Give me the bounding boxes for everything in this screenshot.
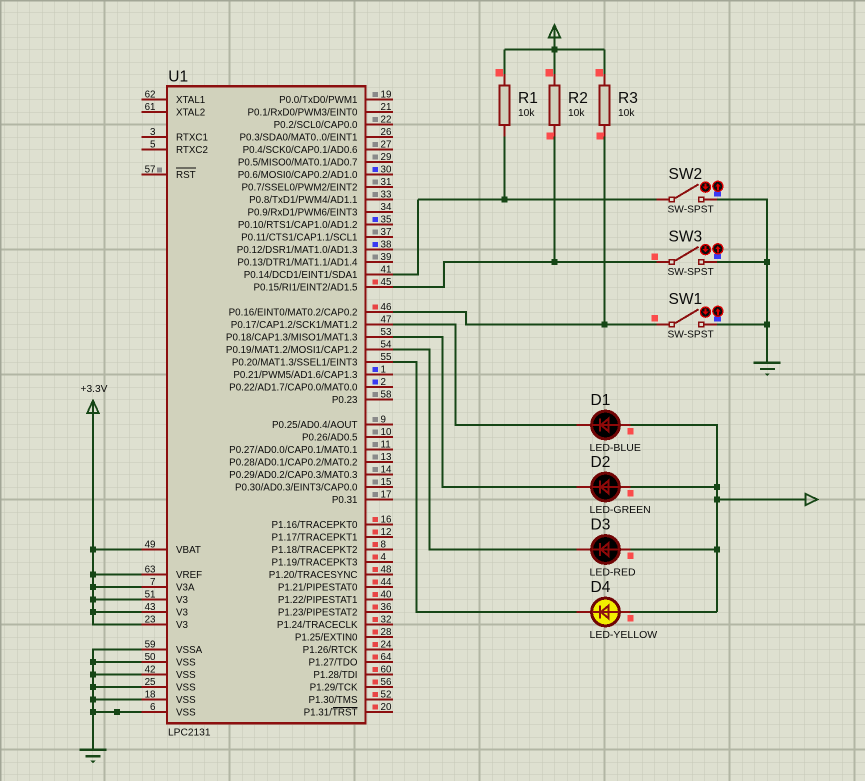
svg-text:P0.26/AD0.5: P0.26/AD0.5: [302, 432, 358, 443]
junction top rail / R2: [552, 47, 558, 53]
svg-text:D1: D1: [591, 392, 611, 409]
svg-text:P0.11/CTS1/CAP1.1/SCL1: P0.11/CTS1/CAP1.1/SCL1: [241, 232, 357, 243]
pin 45 (P0.15/RI1/EINT2/AD1.5) right stub: [253, 277, 392, 294]
wire rail to R3: [604, 50, 606, 75]
svg-text:P1.31/TRST: P1.31/TRST: [304, 707, 358, 718]
svg-text:SW-SPST: SW-SPST: [668, 267, 714, 278]
pin 17 (P0.31) right stub: [332, 489, 393, 506]
pin 29 (P0.5/MISO0/MAT0.1/AD0.7) right stub: [238, 152, 393, 169]
svg-text:XTAL1: XTAL1: [176, 95, 205, 106]
LED D4 LED-YELLOW: [577, 579, 658, 641]
pin 47 (P0.17/CAP1.2/SCK1/MAT1.2) right stub: [231, 314, 393, 331]
svg-text:32: 32: [381, 614, 392, 625]
pin 50 (VSS) left stub: [142, 652, 196, 669]
svg-text:26: 26: [381, 127, 392, 138]
svg-text:LED-BLUE: LED-BLUE: [590, 442, 641, 454]
svg-text:SW1: SW1: [669, 291, 703, 308]
net marker R1 top: [496, 69, 503, 76]
wire P0.16 to SW1 row: [393, 312, 657, 325]
wire P0.15 to SW3 row: [393, 262, 657, 287]
svg-text:VREF: VREF: [176, 570, 202, 581]
junction rail / V3A: [90, 584, 96, 590]
svg-text:P0.22/AD1.7/CAP0.0/MAT0.0: P0.22/AD1.7/CAP0.0/MAT0.0: [229, 382, 358, 393]
pin 42 (VSS) left stub: [142, 664, 196, 681]
pin 43 (V3) left stub: [142, 602, 189, 619]
pin 2 (P0.22/AD1.7/CAP0.0/MAT0.0) right stub: [229, 377, 393, 394]
svg-text:21: 21: [381, 102, 392, 113]
svg-text:16: 16: [381, 514, 392, 525]
junction bus / D3: [714, 547, 720, 553]
svg-text:64: 64: [381, 652, 392, 663]
junction R1 / SW2 row: [502, 197, 508, 203]
svg-text:RST: RST: [176, 170, 196, 181]
wire rail to VSS pin25: [93, 686, 142, 688]
svg-text:P0.20/MAT1.3/SSEL1/EINT3: P0.20/MAT1.3/SSEL1/EINT3: [232, 357, 358, 368]
wire +3.3V to V3 pin43: [93, 611, 142, 613]
svg-text:45: 45: [381, 277, 392, 288]
wire D4 to cathode bus: [631, 611, 718, 613]
pin 32 (P1.24/TRACECLK) right stub: [277, 614, 393, 631]
svg-text:2: 2: [381, 377, 386, 388]
net marker D4 cathode: [627, 615, 633, 621]
wire D3 to cathode bus: [631, 549, 718, 551]
svg-text:SW-SPST: SW-SPST: [668, 205, 714, 216]
svg-text:V3: V3: [176, 607, 189, 618]
ground (below switches): [754, 363, 781, 377]
svg-text:47: 47: [381, 314, 392, 325]
svg-text:VSSA: VSSA: [176, 645, 203, 656]
svg-text:P0.14/DCD1/EINT1/SDA1: P0.14/DCD1/EINT1/SDA1: [244, 270, 358, 281]
svg-text:11: 11: [381, 439, 391, 450]
svg-text:P1.22/PIPESTAT1: P1.22/PIPESTAT1: [278, 595, 358, 606]
svg-text:7: 7: [150, 577, 155, 588]
power terminal +V (top): [549, 25, 561, 50]
pin 21 (P0.1/RxD0/PWM3/EINT0) right stub: [248, 102, 393, 119]
svg-text:RTXC1: RTXC1: [176, 132, 208, 143]
svg-text:51: 51: [145, 589, 156, 600]
pin 23 (V3) left stub: [142, 614, 189, 631]
pin 5 (RTXC2) left stub: [142, 139, 208, 156]
pin 34 (P0.9/RxD1/PWM6/EINT3) right stub: [248, 202, 393, 219]
pin 8 (P1.18/TRACEPKT2) right stub: [271, 539, 392, 556]
pin 24 (P1.26/RTCK) right stub: [303, 639, 393, 656]
net marker D3 cathode: [627, 553, 633, 559]
svg-text:52: 52: [381, 689, 392, 700]
svg-text:35: 35: [381, 214, 392, 225]
wire P0.20 to D4: [393, 362, 577, 612]
svg-text:D2: D2: [591, 454, 611, 471]
pin 59 (VSSA) left stub: [142, 639, 203, 656]
svg-text:RTXC2: RTXC2: [176, 145, 208, 156]
svg-text:24: 24: [381, 639, 392, 650]
junction rail / VSS pin18: [90, 697, 96, 703]
pin 64 (P1.27/TDO) right stub: [308, 652, 392, 669]
svg-text:3: 3: [150, 127, 156, 138]
svg-text:P1.20/TRACESYNC: P1.20/TRACESYNC: [269, 570, 358, 581]
svg-text:P1.29/TCK: P1.29/TCK: [310, 682, 358, 693]
svg-text:VSS: VSS: [176, 657, 196, 668]
pin 51 (V3) left stub: [142, 589, 189, 606]
svg-text:V3: V3: [176, 595, 189, 606]
svg-text:63: 63: [145, 564, 156, 575]
svg-text:41: 41: [381, 264, 392, 275]
wire R1 bottom to SW2 row: [504, 137, 506, 200]
svg-text:34: 34: [381, 202, 392, 213]
net marker D1 cathode: [627, 428, 633, 434]
pin 9 (P0.25/AD0.4/AOUT) right stub: [272, 414, 393, 431]
wire P0.17 to D1: [393, 325, 577, 426]
switch SW1 SW-SPST: [657, 291, 724, 341]
pin 40 (P1.22/PIPESTAT1) right stub: [278, 589, 393, 606]
wire SW3 to ground bus: [717, 261, 767, 263]
pin 38 (P0.12/DSR1/MAT1.0/AD1.3) right stub: [237, 239, 393, 256]
junction bus / output: [714, 497, 720, 503]
svg-text:30: 30: [381, 164, 392, 175]
svg-text:23: 23: [145, 614, 156, 625]
wire VSS rail: [93, 650, 142, 750]
svg-text:P1.18/TRACEPKT2: P1.18/TRACEPKT2: [271, 545, 357, 556]
svg-text:56: 56: [381, 677, 392, 688]
svg-text:40: 40: [381, 589, 392, 600]
pin 10 (P0.26/AD0.5) right stub: [302, 427, 393, 444]
svg-text:57: 57: [145, 164, 156, 175]
svg-text:10k: 10k: [518, 108, 535, 119]
svg-text:12: 12: [381, 527, 392, 538]
wire SW2 row horizontal: [418, 199, 657, 201]
pin 61 (XTAL2) left stub: [142, 102, 206, 119]
svg-text:P0.19/MAT1.2/MOSI1/CAP1.2: P0.19/MAT1.2/MOSI1/CAP1.2: [226, 345, 358, 356]
svg-text:XTAL2: XTAL2: [176, 107, 205, 118]
wire SW1 to ground bus: [717, 324, 767, 326]
svg-text:P1.16/TRACEPKT0: P1.16/TRACEPKT0: [271, 520, 358, 531]
LED D2 LED-GREEN: [577, 454, 651, 516]
svg-text:P1.21/PIPESTAT0: P1.21/PIPESTAT0: [278, 582, 358, 593]
junction rail / VBAT: [90, 547, 96, 553]
svg-text:P0.9/RxD1/PWM6/EINT3: P0.9/RxD1/PWM6/EINT3: [248, 207, 359, 218]
svg-text:49: 49: [145, 539, 156, 550]
wire P0.14 to SW2 row: [393, 200, 418, 275]
pin 28 (P1.25/EXTIN0) right stub: [295, 627, 393, 644]
wire +3.3V to VBAT: [93, 549, 142, 551]
svg-text:P0.15/RI1/EINT2/AD1.5: P0.15/RI1/EINT2/AD1.5: [253, 282, 358, 293]
svg-text:D3: D3: [591, 517, 611, 534]
svg-text:P0.27/AD0.0/CAP0.1/MAT0.1: P0.27/AD0.0/CAP0.1/MAT0.1: [229, 445, 357, 456]
pin 22 (P0.2/SCL0/CAP0.0) right stub: [274, 114, 393, 131]
pin 15 (P0.30/AD0.3/EINT3/CAP0.0) right stub: [235, 477, 393, 494]
svg-text:P0.13/DTR1/MAT1.1/AD1.4: P0.13/DTR1/MAT1.1/AD1.4: [237, 257, 358, 268]
pin 12 (P1.17/TRACEPKT1) right stub: [271, 527, 392, 544]
net marker D2 cathode: [627, 490, 633, 496]
svg-text:37: 37: [381, 227, 392, 238]
svg-text:27: 27: [381, 139, 392, 150]
wire rail to VSS pin18: [93, 699, 142, 701]
pin 49 (VBAT) left stub: [142, 539, 201, 556]
output terminal arrow: [806, 494, 818, 506]
svg-text:P1.25/EXTIN0: P1.25/EXTIN0: [295, 632, 358, 643]
svg-text:22: 22: [381, 114, 392, 125]
svg-text:59: 59: [145, 639, 156, 650]
pin 13 (P0.28/AD0.1/CAP0.2/MAT0.2) right stub: [229, 452, 393, 469]
svg-text:P1.23/PIPESTAT2: P1.23/PIPESTAT2: [278, 607, 358, 618]
pin 46 (P0.16/EINT0/MAT0.2/CAP0.2) right stub: [229, 302, 393, 319]
svg-text:18: 18: [145, 689, 156, 700]
svg-text:P0.6/MOSI0/CAP0.2/AD1.0: P0.6/MOSI0/CAP0.2/AD1.0: [238, 170, 358, 181]
svg-text:LPC2131: LPC2131: [168, 728, 211, 739]
wire rail to VSS pin50: [93, 661, 142, 663]
svg-text:39: 39: [381, 252, 392, 263]
resistor R2 10k: [549, 74, 588, 137]
net marker R2 top: [546, 69, 553, 76]
svg-text:10: 10: [381, 427, 392, 438]
junction rail / VSS pin25: [90, 684, 96, 690]
wire rail to R2: [554, 50, 556, 75]
svg-text:5: 5: [150, 139, 156, 150]
wire +3.3V to V3A: [93, 586, 142, 588]
svg-text:19: 19: [381, 89, 392, 100]
resistor R1 10k: [499, 74, 538, 137]
svg-text:SW3: SW3: [669, 229, 703, 246]
svg-text:55: 55: [381, 352, 392, 363]
svg-text:P1.28/TDI: P1.28/TDI: [313, 670, 357, 681]
net marker SW3 input: [652, 254, 659, 261]
svg-text:SW2: SW2: [669, 166, 703, 183]
wire D2 to cathode bus: [631, 486, 718, 488]
wire rail to R1: [504, 50, 506, 75]
junction rail / V3 pin51: [90, 597, 96, 603]
wire R3 bottom to SW1 row: [604, 137, 606, 325]
svg-text:P1.24/TRACECLK: P1.24/TRACECLK: [277, 620, 358, 631]
svg-text:20: 20: [381, 702, 392, 713]
svg-text:LED-YELLOW: LED-YELLOW: [590, 629, 658, 641]
svg-text:4: 4: [381, 552, 387, 563]
svg-text:P0.12/DSR1/MAT1.0/AD1.3: P0.12/DSR1/MAT1.0/AD1.3: [237, 245, 358, 256]
svg-text:P0.4/SCK0/CAP0.1/AD0.6: P0.4/SCK0/CAP0.1/AD0.6: [243, 145, 358, 156]
svg-text:28: 28: [381, 627, 392, 638]
pin 52 (P1.30/TMS) right stub: [308, 689, 392, 706]
junction rail / VSS pin42: [90, 672, 96, 678]
svg-text:P0.21/PWM5/AD1.6/CAP1.3: P0.21/PWM5/AD1.6/CAP1.3: [233, 370, 358, 381]
pin 41 (P0.14/DCD1/EINT1/SDA1) right stub: [244, 264, 393, 281]
svg-text:U1: U1: [168, 69, 188, 86]
svg-text:13: 13: [381, 452, 392, 463]
wire P0.18 to D2: [393, 337, 577, 487]
svg-text:V3: V3: [176, 620, 189, 631]
svg-text:LED-GREEN: LED-GREEN: [590, 504, 651, 516]
pin 58 (P0.23) right stub: [332, 389, 393, 406]
svg-text:R1: R1: [518, 90, 538, 107]
pin 53 (P0.18/CAP1.3/MISO1/MAT1.3) right stub: [226, 327, 393, 344]
junction R2 / SW3 row: [552, 259, 558, 265]
svg-text:P0.10/RTS1/CAP1.0/AD1.2: P0.10/RTS1/CAP1.0/AD1.2: [238, 220, 358, 231]
pin 62 (XTAL1) left stub: [142, 89, 206, 106]
svg-text:VSS: VSS: [176, 682, 196, 693]
junction bus / SW1: [764, 322, 770, 328]
svg-text:V3A: V3A: [176, 582, 195, 593]
junction bus / SW3: [764, 259, 770, 265]
pin 33 (P0.8/TxD1/PWM4/AD1.1) right stub: [249, 189, 393, 206]
svg-text:38: 38: [381, 239, 392, 250]
pin 57 (RST) left stub: [142, 164, 196, 181]
junction rail / VREF: [90, 572, 96, 578]
net marker R3 top: [596, 69, 603, 76]
U1 reference label: [168, 69, 188, 86]
LPC2131 value label: [168, 728, 211, 739]
pin 26 (P0.3/SDA0/MAT0..0/EINT1) right stub: [240, 127, 393, 144]
svg-text:46: 46: [381, 302, 392, 313]
pin 11 (P0.27/AD0.0/CAP0.1/MAT0.1) right stub: [229, 439, 393, 456]
net marker SW1 input: [652, 315, 659, 322]
pin 20 (P1.31/TRST) right stub: [304, 702, 393, 719]
net marker R2 bottom: [547, 132, 554, 139]
net marker R3 bottom: [597, 132, 604, 139]
wire +3.3V to VREF: [93, 574, 142, 576]
svg-text:P1.26/RTCK: P1.26/RTCK: [303, 645, 358, 656]
pin 54 (P0.19/MAT1.2/MOSI1/CAP1.2) right stub: [226, 339, 393, 356]
pin 63 (VREF) left stub: [142, 564, 202, 581]
svg-text:8: 8: [381, 539, 387, 550]
svg-text:6: 6: [150, 702, 156, 713]
ground (bottom left): [80, 750, 107, 764]
svg-text:14: 14: [381, 464, 392, 475]
svg-text:48: 48: [381, 564, 392, 575]
pin 6 (VSS) left stub: [142, 702, 196, 719]
pin 37 (P0.11/CTS1/CAP1.1/SCL1) right stub: [241, 227, 393, 244]
svg-text:60: 60: [381, 664, 392, 675]
svg-text:VSS: VSS: [176, 707, 196, 718]
LED D3 LED-RED: [577, 517, 637, 579]
svg-text:61: 61: [145, 102, 156, 113]
pin 55 (P0.20/MAT1.3/SSEL1/EINT3) right stub: [232, 352, 393, 369]
svg-text:33: 33: [381, 189, 392, 200]
svg-text:54: 54: [381, 339, 392, 350]
svg-text:VSS: VSS: [176, 670, 196, 681]
pin 27 (P0.4/SCK0/CAP0.1/AD0.6) right stub: [243, 139, 393, 156]
wire SW2 to ground bus: [717, 200, 767, 363]
svg-text:50: 50: [145, 652, 156, 663]
pin 16 (P1.16/TRACEPKT0) right stub: [271, 514, 392, 531]
svg-text:62: 62: [145, 89, 156, 100]
pin 19 (P0.0/TxD0/PWM1) right stub: [279, 89, 393, 106]
pin 44 (P1.21/PIPESTAT0) right stub: [278, 577, 393, 594]
pin 3 (RTXC1) left stub: [142, 127, 208, 144]
svg-text:P0.23: P0.23: [332, 395, 358, 406]
switch SW3 SW-SPST: [657, 229, 724, 279]
junction stray on VSS pin6 wire: [114, 709, 120, 715]
junction bus / D2: [714, 484, 720, 490]
svg-text:P1.30/TMS: P1.30/TMS: [308, 695, 357, 706]
svg-text:P1.19/TRACEPKT3: P1.19/TRACEPKT3: [271, 557, 358, 568]
pin 1 (P0.21/PWM5/AD1.6/CAP1.3) right stub: [233, 364, 392, 381]
svg-text:VBAT: VBAT: [176, 545, 201, 556]
pin 30 (P0.6/MOSI0/CAP0.2/AD1.0) right stub: [238, 164, 393, 181]
svg-text:44: 44: [381, 577, 392, 588]
svg-text:P0.18/CAP1.3/MISO1/MAT1.3: P0.18/CAP1.3/MISO1/MAT1.3: [226, 332, 358, 343]
svg-text:R3: R3: [618, 90, 638, 107]
svg-text:43: 43: [145, 602, 156, 613]
svg-text:+3.3V: +3.3V: [81, 384, 108, 395]
svg-text:53: 53: [381, 327, 392, 338]
svg-text:P0.30/AD0.3/EINT3/CAP0.0: P0.30/AD0.3/EINT3/CAP0.0: [235, 482, 358, 493]
pin 31 (P0.7/SSEL0/PWM2/EINT2) right stub: [242, 177, 393, 194]
svg-text:25: 25: [145, 677, 156, 688]
svg-text:D4: D4: [591, 579, 611, 596]
svg-text:P0.31: P0.31: [332, 495, 358, 506]
svg-text:9: 9: [381, 414, 386, 425]
svg-text:P0.29/AD0.2/CAP0.3/MAT0.3: P0.29/AD0.2/CAP0.3/MAT0.3: [229, 470, 358, 481]
svg-text:P1.17/TRACEPKT1: P1.17/TRACEPKT1: [271, 532, 357, 543]
wire +3.3V rail: [93, 413, 142, 624]
svg-text:P0.5/MISO0/MAT0.1/AD0.7: P0.5/MISO0/MAT0.1/AD0.7: [238, 157, 358, 168]
pin 14 (P0.29/AD0.2/CAP0.3/MAT0.3) right stub: [229, 464, 393, 481]
pin 39 (P0.13/DTR1/MAT1.1/AD1.4) right stub: [237, 252, 392, 269]
svg-text:P0.25/AD0.4/AOUT: P0.25/AD0.4/AOUT: [272, 420, 358, 431]
wire D1 to cathode bus: [631, 425, 718, 612]
svg-text:42: 42: [145, 664, 156, 675]
svg-text:P0.0/TxD0/PWM1: P0.0/TxD0/PWM1: [279, 95, 357, 106]
LED D1 LED-BLUE: [577, 392, 641, 454]
power terminal +3.3V: [81, 384, 108, 413]
svg-text:31: 31: [381, 177, 392, 188]
junction rail / VSS pin50: [90, 659, 96, 665]
wire +3.3V to V3 pin51: [93, 599, 142, 601]
svg-text:P0.7/SSEL0/PWM2/EINT2: P0.7/SSEL0/PWM2/EINT2: [242, 182, 358, 193]
svg-text:P1.27/TDO: P1.27/TDO: [308, 657, 357, 668]
wire top rail: [505, 49, 605, 51]
svg-text:P0.28/AD0.1/CAP0.2/MAT0.2: P0.28/AD0.1/CAP0.2/MAT0.2: [229, 457, 357, 468]
svg-text:10k: 10k: [568, 108, 585, 119]
svg-text:R2: R2: [568, 90, 588, 107]
svg-text:1: 1: [381, 364, 386, 375]
svg-text:SW-SPST: SW-SPST: [668, 330, 714, 341]
switch SW2 SW-SPST: [657, 166, 724, 216]
junction rail / VSS pin6: [90, 709, 96, 715]
wire rail to VSS pin42: [93, 674, 142, 676]
pin 48 (P1.20/TRACESYNC) right stub: [269, 564, 393, 581]
pin 56 (P1.29/TCK) right stub: [310, 677, 393, 694]
svg-text:VSS: VSS: [176, 695, 196, 706]
wire P0.19 to D3: [393, 350, 577, 550]
pin 36 (P1.23/PIPESTAT2) right stub: [278, 602, 393, 619]
svg-text:10k: 10k: [618, 108, 635, 119]
junction rail / V3 pin43: [90, 609, 96, 615]
pin 4 (P1.19/TRACEPKT3) right stub: [271, 552, 392, 569]
wire rail to VSS pin6: [93, 711, 142, 713]
pin 35 (P0.10/RTS1/CAP1.0/AD1.2) right stub: [238, 214, 393, 231]
svg-text:29: 29: [381, 152, 392, 163]
svg-text:LED-RED: LED-RED: [590, 567, 637, 579]
resistor R3 10k: [599, 74, 638, 137]
svg-text:17: 17: [381, 489, 392, 500]
svg-text:36: 36: [381, 602, 392, 613]
wire R2 bottom to SW3 row: [554, 137, 556, 263]
pin 18 (VSS) left stub: [142, 689, 196, 706]
svg-text:P0.1/RxD0/PWM3/EINT0: P0.1/RxD0/PWM3/EINT0: [248, 107, 359, 118]
junction R3 / SW1 row: [602, 322, 608, 328]
pin 60 (P1.28/TDI) right stub: [313, 664, 392, 681]
svg-text:58: 58: [381, 389, 392, 400]
IC U1 LPC2131 body: [167, 86, 366, 723]
svg-text:P0.3/SDA0/MAT0..0/EINT1: P0.3/SDA0/MAT0..0/EINT1: [240, 132, 358, 143]
svg-text:P0.2/SCL0/CAP0.0: P0.2/SCL0/CAP0.0: [274, 120, 358, 131]
pin 7 (V3A) left stub: [142, 577, 195, 594]
svg-text:P0.8/TxD1/PWM4/AD1.1: P0.8/TxD1/PWM4/AD1.1: [249, 195, 357, 206]
pin 25 (VSS) left stub: [142, 677, 196, 694]
svg-text:15: 15: [381, 477, 392, 488]
wire bus to output terminal: [717, 499, 806, 501]
svg-text:P0.17/CAP1.2/SCK1/MAT1.2: P0.17/CAP1.2/SCK1/MAT1.2: [231, 320, 358, 331]
svg-text:P0.16/EINT0/MAT0.2/CAP0.2: P0.16/EINT0/MAT0.2/CAP0.2: [229, 307, 358, 318]
